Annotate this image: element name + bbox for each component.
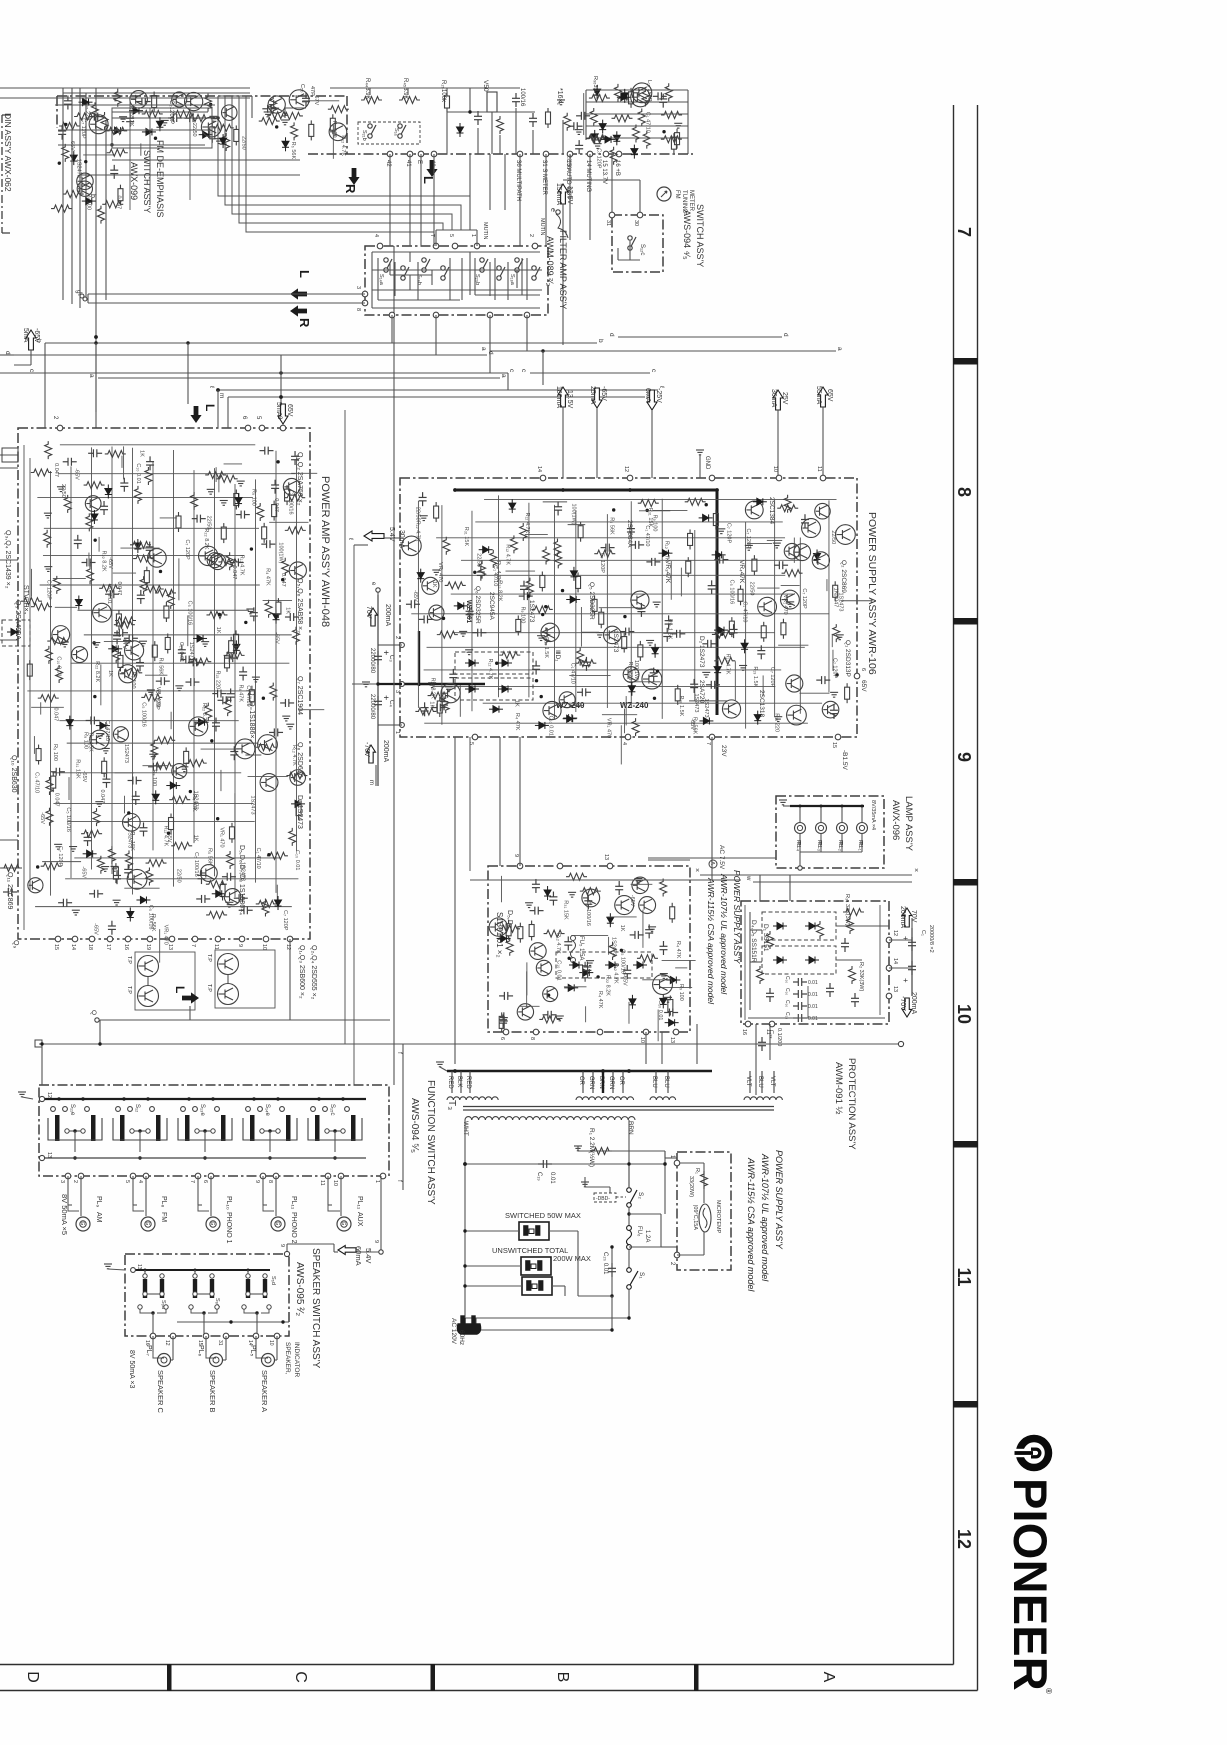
svg-text:-65V: -65V: [107, 557, 113, 569]
resistor: [566, 873, 587, 880]
svg-text:23V: 23V: [720, 745, 727, 757]
resistor: [282, 558, 289, 576]
border bottom tick 2: [431, 1664, 436, 1691]
resistor: [267, 852, 288, 859]
speaker lower wires: [140, 1309, 166, 1313]
resistor: [632, 124, 639, 142]
diode: [199, 131, 213, 138]
svg-text:S₂₁b: S₂₁b: [361, 130, 367, 141]
resistor: [265, 600, 272, 618]
resistor: [106, 127, 127, 134]
ground: [209, 116, 217, 121]
svg-text:AWM-091 ½: AWM-091 ½: [833, 1062, 844, 1115]
resistor: [643, 131, 650, 149]
resistor: [51, 205, 72, 212]
resistor box: [576, 572, 581, 592]
filter bottom pins: [389, 312, 395, 318]
ground switch area: [581, 1182, 589, 1187]
svg-text:11: 11: [816, 466, 822, 472]
terminal wires: [262, 1176, 264, 1205]
diode: [454, 602, 468, 609]
svg-text:AWX-096: AWX-096: [890, 800, 901, 840]
wire: [220, 770, 222, 791]
ground: [201, 642, 209, 647]
svg-text:33(20W): 33(20W): [688, 1176, 694, 1197]
resistor: [594, 550, 615, 557]
resistor: [415, 708, 436, 715]
junction: [835, 673, 838, 676]
capacitor: [615, 881, 623, 895]
transistor: [822, 701, 839, 718]
ground: [175, 686, 183, 691]
svg-text:18: 18: [87, 944, 93, 950]
wire rail: [255, 479, 257, 882]
speaker switch assy box: [125, 1254, 289, 1336]
bus wire b1: [45, 342, 597, 344]
svg-text:C₁₀: C₁₀: [784, 1000, 790, 1007]
resistor: [542, 627, 549, 645]
svg-text:-65V: -65V: [274, 632, 280, 644]
function pin 4: [143, 1173, 149, 1179]
transformer core: [463, 1106, 774, 1108]
capacitor C19 0.01: [465, 1163, 665, 1165]
wire: [586, 137, 688, 139]
wire: [571, 934, 608, 936]
arrow 5.4V 30mA: [364, 531, 384, 541]
resistor: [21, 598, 42, 605]
resistor: [661, 136, 682, 143]
transistor: [93, 603, 112, 622]
svg-text:C₅ 100/16: C₅ 100/16: [141, 702, 147, 727]
function switch group S&#8321;&#8322;: [116, 1107, 121, 1112]
junction: [561, 589, 564, 592]
wire bundle L1: [218, 96, 470, 230]
tuner wire h3: [112, 117, 168, 119]
wire primary bottom: [465, 1317, 629, 1319]
capacitor: [659, 941, 667, 955]
svg-text:C₅ 100/16: C₅ 100/16: [728, 580, 734, 605]
wire: [831, 634, 833, 647]
wire rail: [432, 685, 775, 687]
transistor: [489, 918, 507, 936]
resistor: [87, 566, 94, 584]
svg-text:R₁₂ 4.7K: R₁₂ 4.7K: [555, 933, 561, 954]
capacitor: [575, 140, 583, 154]
svg-text:×: ×: [693, 868, 700, 872]
resistor: [140, 576, 147, 594]
svg-text:R₄ 47K: R₄ 47K: [597, 991, 603, 1009]
resistor: [143, 585, 164, 592]
speaker pin 10: [274, 1333, 280, 1339]
wire: [599, 607, 638, 609]
wire: [121, 456, 123, 468]
filter drops to bus: [391, 315, 393, 343]
diode: [699, 514, 713, 521]
wire to filter: [519, 154, 521, 246]
svg-text:AC 7.5V: AC 7.5V: [718, 845, 725, 870]
transistor: [77, 173, 94, 190]
resistor box: [118, 185, 123, 205]
svg-text:0.01: 0.01: [549, 1172, 555, 1184]
svg-text:5mA: 5mA: [275, 402, 282, 417]
wire: [662, 959, 696, 961]
svg-text:MUTIN: MUTIN: [539, 218, 545, 235]
output transistor Q3: [218, 954, 239, 975]
arrow L bold top of amp: [190, 406, 201, 423]
tuner left stub lines: [0, 87, 55, 89]
svg-text:-65V: -65V: [412, 590, 418, 602]
svg-text:T.P: T.P: [126, 956, 132, 964]
capacitor: [519, 592, 533, 600]
svg-text:1K: 1K: [619, 925, 625, 932]
svg-text:D₉ 1S2473: D₉ 1S2473: [296, 795, 303, 829]
svg-text:AWS-094 ⁴⁄₅: AWS-094 ⁴⁄₅: [682, 210, 692, 260]
speaker contact bar 1: [143, 1279, 147, 1298]
transistor: [201, 117, 221, 137]
svg-text:VR₄47K: VR₄47K: [738, 560, 745, 584]
resistor: [81, 830, 102, 837]
svg-text:VR₁ 470: VR₁ 470: [437, 562, 443, 582]
wire rail: [132, 448, 134, 895]
svg-text:PHONO 2: PHONO 2: [290, 1212, 297, 1244]
diode: [83, 850, 97, 857]
switch assy AWS-094 box: [612, 215, 663, 272]
resistor: [115, 617, 136, 624]
function switch group S&#8321;&#8323;e: [181, 1107, 186, 1112]
bold arrow L output: [182, 992, 199, 1003]
lamp PL1: [857, 823, 868, 834]
svg-text:PL₄: PL₄: [795, 842, 801, 852]
svg-text:PL₃: PL₃: [816, 842, 822, 851]
svg-text:30mA: 30mA: [398, 530, 405, 549]
node h: [83, 297, 87, 301]
de-emphasis box top edge: [57, 95, 347, 97]
svg-text:R₁₂ 4.7K: R₁₂ 4.7K: [163, 825, 169, 846]
diode: [753, 498, 767, 505]
svg-text:Q₃,Q₄ 2SC1439 ×₂: Q₃,Q₄ 2SC1439 ×₂: [4, 530, 11, 589]
diode: [607, 913, 614, 927]
resistor: [173, 110, 194, 117]
transistor: [28, 878, 43, 893]
resistor: [609, 942, 616, 960]
AC plug: [457, 1316, 480, 1334]
junction: [218, 613, 221, 616]
junction: [628, 488, 632, 492]
capacitor: [554, 501, 562, 515]
wire rail: [471, 511, 473, 711]
transistor: [72, 647, 88, 663]
svg-text:3: 3: [394, 690, 400, 693]
wire: [689, 700, 727, 702]
capacitor: [285, 613, 299, 621]
vertical from supply to rect: [499, 737, 501, 866]
wire x long: [700, 874, 912, 876]
resistor box: [152, 641, 157, 661]
svg-text:2: 2: [528, 234, 534, 237]
junction: [541, 613, 544, 616]
protection right pins: [886, 937, 892, 943]
horizontal link y860: [648, 859, 690, 861]
transistor: [632, 83, 652, 103]
resistor: [262, 899, 269, 917]
wire rail: [234, 484, 236, 897]
wire rail: [67, 821, 255, 823]
svg-text:-70V: -70V: [899, 996, 906, 1011]
transistor: [289, 562, 306, 579]
svg-text:6mA: 6mA: [644, 388, 651, 403]
resistor box: [152, 92, 157, 112]
rectifier assy box: [488, 866, 690, 1032]
junction: [561, 488, 565, 492]
transistor: [119, 665, 137, 683]
resistor box: [516, 615, 521, 635]
wire bundle L2: [225, 96, 461, 230]
svg-text:R₄₅3.9K: R₄₅3.9K: [402, 78, 408, 100]
pin 1 bottom: [55, 936, 61, 942]
svg-text:16: 16: [741, 1029, 747, 1035]
resistor: [97, 856, 104, 874]
svg-text:T₃: T₃: [446, 1100, 457, 1110]
wire: [276, 885, 278, 900]
capacitor: [146, 542, 154, 556]
diode: [136, 896, 150, 903]
svg-text:C₁ 47/10: C₁ 47/10: [255, 848, 261, 869]
wire: [187, 615, 189, 646]
svg-text:C₇ 120P: C₇ 120P: [726, 523, 732, 544]
junction: [540, 695, 543, 698]
power supply assy box: [400, 478, 857, 737]
resistor: [544, 930, 565, 937]
resistor box: [234, 125, 239, 145]
ground: [525, 903, 533, 908]
diode: [617, 94, 631, 101]
svg-text:C₁ 47/10: C₁ 47/10: [741, 601, 747, 622]
svg-text:60Hz: 60Hz: [458, 1330, 465, 1345]
function pin 5: [130, 1173, 136, 1179]
wire: [33, 736, 35, 754]
wire: [628, 1002, 630, 1024]
svg-text:R₉₆3.5K: R₉₆3.5K: [592, 76, 598, 96]
transistor: [283, 478, 300, 495]
resistor: [714, 657, 735, 664]
resistor: [589, 95, 610, 102]
wire vertical left pair: [85, 93, 87, 300]
svg-text:Q₆ 2SD325R: Q₆ 2SD325R: [474, 586, 481, 624]
wire bundle L3: [232, 96, 452, 230]
resistor: [520, 523, 527, 541]
resistor: [532, 606, 553, 613]
node g: [80, 294, 84, 298]
resistor: [526, 578, 533, 596]
resistor box: [36, 745, 41, 765]
svg-text:4: 4: [373, 234, 379, 237]
diode: [741, 639, 748, 653]
svg-text:VR₁ 470: VR₁ 470: [605, 718, 611, 738]
svg-text:DIN ASS'Y AWX-062: DIN ASS'Y AWX-062: [3, 113, 13, 192]
resistor: [205, 94, 212, 112]
ground: [660, 974, 668, 979]
resistor: [782, 570, 803, 577]
diodes box2: [773, 957, 787, 964]
svg-text:10: 10: [261, 944, 267, 950]
junction: [216, 817, 219, 820]
capacitor: [124, 864, 132, 878]
svg-text:0.01: 0.01: [808, 980, 818, 986]
junction: [210, 739, 213, 742]
ground: [220, 500, 228, 505]
wire rail: [436, 537, 785, 539]
wire: [124, 887, 159, 889]
junction: [544, 605, 547, 608]
ground: [161, 120, 169, 125]
function ground: [18, 1092, 26, 1097]
resistor box: [118, 651, 123, 671]
junction: [535, 679, 538, 682]
ground: [836, 635, 844, 640]
capacitor: [630, 541, 644, 549]
microtemp wire: [703, 1232, 705, 1255]
svg-text:200mA: 200mA: [899, 906, 906, 929]
ground: [282, 716, 290, 721]
wire: [568, 524, 586, 526]
svg-text:ⅢD₁: ⅢD₁: [554, 650, 561, 662]
transistor: [745, 501, 763, 519]
resistor: [64, 495, 71, 513]
resistor: [291, 122, 298, 140]
pin 41 on tuner edge: [407, 151, 413, 157]
wire rail: [694, 530, 696, 701]
function top bus: [43, 1098, 366, 1100]
capacitor: [88, 449, 102, 457]
svg-text:8: 8: [267, 1180, 273, 1183]
svg-text:*16×₁: *16×₁: [556, 88, 563, 106]
svg-text:1.2A: 1.2A: [644, 1230, 650, 1242]
capacitor: [665, 615, 673, 629]
diode: [599, 120, 606, 134]
Pioneer logo mark: [1015, 1439, 1049, 1468]
junction: [167, 831, 170, 834]
svg-text:f: f: [396, 1052, 403, 1054]
transistor: [148, 549, 167, 568]
wire: [88, 553, 90, 567]
capacitor: [714, 556, 728, 564]
transistor: [89, 115, 108, 134]
lamp PL2: [837, 823, 848, 834]
svg-text:200mA: 200mA: [910, 992, 917, 1015]
svg-text:19: 19: [145, 944, 151, 950]
svg-text:R₄ 47K: R₄ 47K: [675, 941, 681, 959]
thick BRN wire: [602, 1071, 604, 1093]
wire: [586, 89, 688, 91]
svg-text:C₁ 47/10: C₁ 47/10: [644, 525, 650, 546]
diode: [195, 719, 209, 726]
svg-text:3: 3: [59, 1180, 65, 1183]
svg-text:SWITCH ASS'Y: SWITCH ASS'Y: [142, 150, 152, 213]
thick bus vertical: [716, 490, 719, 715]
ground: [112, 96, 120, 101]
wire: [120, 547, 159, 549]
fuse FU5: [571, 936, 576, 941]
transistor: [543, 701, 561, 719]
wire L to filter: [88, 293, 365, 295]
speaker terminal wires: [255, 1336, 257, 1352]
capacitor: [653, 92, 667, 100]
ground: [180, 767, 188, 772]
resistor: [153, 762, 174, 769]
capacitor: [58, 899, 72, 907]
diode: [220, 134, 227, 148]
capacitor: [549, 892, 557, 906]
svg-text:PL₁₁: PL₁₁: [290, 1196, 297, 1210]
tuner col lines: [446, 112, 448, 154]
ground: [123, 641, 131, 646]
svg-text:S₁₂: S₁₂: [134, 1104, 140, 1113]
svg-text:13: 13: [892, 986, 898, 992]
wire rail: [78, 609, 249, 611]
capacitor: [466, 606, 474, 620]
junction: [495, 662, 498, 665]
wire down left: [41, 1044, 43, 1085]
border bottom tick 3: [694, 1664, 699, 1691]
svg-text:R₃₁ 15K: R₃₁ 15K: [563, 900, 569, 920]
capacitor C11 0.01: [793, 1014, 807, 1022]
wire rail: [70, 466, 72, 878]
svg-text:R₁: R₁: [694, 1168, 700, 1174]
wire rail: [828, 500, 830, 692]
resistor: [660, 879, 667, 897]
capacitor: [224, 654, 238, 662]
wire: [201, 748, 240, 750]
junction dot: [216, 116, 219, 119]
outlet 2: [521, 1257, 551, 1275]
wire: [234, 793, 236, 822]
resistor box: [529, 921, 534, 941]
ground: [648, 927, 656, 932]
capacitor: [178, 644, 186, 658]
capacitor: [774, 561, 788, 569]
protection inner wires: [749, 912, 751, 1010]
resistor: [31, 603, 52, 610]
wire: [245, 754, 261, 756]
svg-text:9: 9: [954, 752, 974, 762]
resistor box: [309, 120, 314, 140]
svg-text:100(1W): 100(1W): [277, 542, 283, 563]
junction: [653, 697, 656, 700]
wire bundle L4: [239, 96, 443, 230]
resistor box: [629, 88, 634, 108]
resistor: [284, 494, 305, 501]
resistor: [479, 561, 486, 579]
capacitor: [234, 894, 248, 902]
transistor: [642, 669, 662, 689]
arrow 180mA 13.5V: [558, 387, 568, 407]
transistor: [780, 590, 799, 609]
capacitor: [663, 628, 671, 642]
ground: [113, 900, 121, 905]
ground: [774, 717, 782, 722]
resistor: [580, 888, 601, 895]
diode: [66, 716, 73, 730]
svg-text:G: G: [340, 1222, 346, 1226]
svg-text:5.4V: 5.4V: [364, 1248, 373, 1263]
diode: [166, 782, 180, 789]
output transistor Q1: [138, 956, 159, 977]
DIN assembly box edge: [2, 115, 10, 233]
resistor: [289, 828, 296, 846]
svg-text:7: 7: [190, 944, 196, 947]
resistor: [564, 113, 571, 131]
junction: [656, 669, 659, 672]
